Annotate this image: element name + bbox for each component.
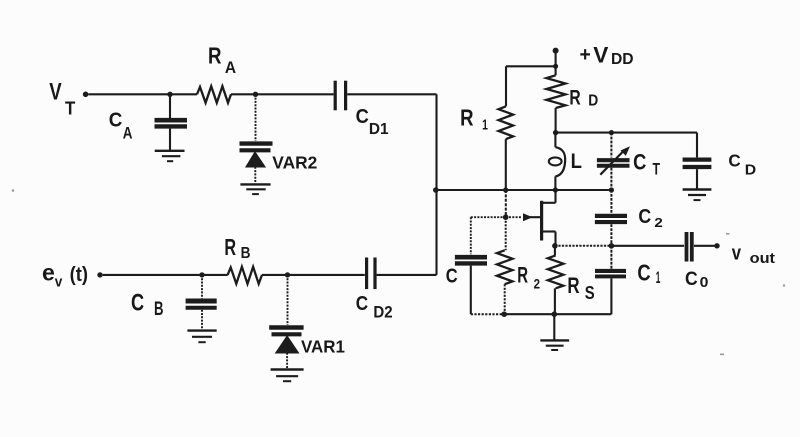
svg-text:0: 0: [700, 274, 709, 291]
svg-text:V: V: [593, 43, 608, 68]
capacitor C: [455, 257, 487, 314]
svg-text:B: B: [154, 298, 164, 320]
capacitor C2: [595, 190, 627, 246]
node junction source: [552, 243, 558, 249]
svg-text:A: A: [225, 58, 236, 77]
svg-text:v: v: [55, 273, 63, 290]
svg-text:A: A: [123, 124, 133, 142]
svg-text:+: +: [580, 44, 591, 66]
wire node CB to RB: [202, 274, 228, 276]
svg-text:R: R: [517, 262, 528, 287]
svg-text:DD: DD: [611, 51, 634, 68]
svg-text:D: D: [745, 161, 757, 178]
resistor RD: [546, 66, 565, 132]
capacitor CB: [186, 275, 217, 330]
wire gate node to arrow: [506, 216, 522, 218]
svg-text:C: C: [356, 105, 369, 128]
ground under CD: [683, 190, 712, 201]
wire node to CD1: [256, 93, 334, 95]
capacitor CD2: [367, 258, 375, 290]
wire R1 bottom to gate node: [505, 190, 507, 217]
svg-text:e: e: [42, 259, 55, 285]
node junction R1 bottom: [503, 187, 508, 192]
node junction R2 bottom: [501, 311, 507, 317]
wire RD bottom to CD: [556, 132, 697, 134]
node junction CT bottom: [609, 187, 614, 192]
svg-text:R: R: [208, 43, 222, 69]
node junction RD bottom: [553, 130, 558, 135]
wire center vertical node A: [435, 94, 437, 275]
wire node to CD2: [288, 274, 365, 276]
inductor L: [549, 133, 565, 190]
svg-text:C: C: [356, 293, 368, 315]
svg-text:VAR2: VAR2: [272, 152, 317, 172]
wire RA to node VAR2: [231, 93, 256, 95]
svg-text:VAR1: VAR1: [301, 336, 345, 356]
svg-text:R: R: [567, 273, 579, 298]
node junction C2 C1: [609, 243, 615, 249]
capacitor CD1: [335, 81, 345, 111]
node junction gate: [503, 214, 509, 220]
svg-text:T: T: [65, 99, 75, 119]
speck marks: [12, 189, 786, 355]
svg-text:v: v: [732, 243, 742, 265]
wire source to C2 node: [555, 245, 612, 247]
svg-text:C: C: [638, 206, 651, 228]
capacitor C1: [595, 246, 626, 314]
svg-text:C: C: [131, 290, 144, 317]
terminal vout: [714, 243, 719, 248]
svg-text:C: C: [685, 269, 698, 290]
capacitor CA: [155, 94, 188, 150]
wire VT to node CA: [88, 93, 170, 95]
wire node CA to RA: [170, 93, 197, 95]
node junction RS bottom: [552, 311, 558, 317]
svg-text:V: V: [49, 79, 61, 106]
wire corner down to C: [470, 217, 472, 254]
svg-text:2: 2: [534, 275, 541, 291]
resistor R1: [499, 66, 514, 190]
wire ev to node CB: [103, 274, 202, 276]
terminal ev: [97, 272, 102, 277]
varactor VAR2: [240, 94, 273, 183]
node A junction: [433, 187, 439, 193]
varactor VAR1: [269, 275, 303, 368]
wire CD1 to center corner: [347, 93, 436, 95]
svg-text:D2: D2: [373, 303, 392, 322]
capacitor CD: [683, 133, 712, 189]
svg-text:B: B: [241, 245, 251, 262]
svg-text:L: L: [571, 150, 582, 173]
svg-text:C: C: [728, 150, 741, 170]
svg-text:C: C: [109, 109, 123, 132]
wire bottom rail: [471, 313, 504, 315]
node junction CB: [199, 272, 204, 277]
svg-text:C: C: [633, 149, 646, 174]
svg-text:C: C: [637, 260, 650, 286]
node junction L bottom: [553, 187, 558, 192]
svg-text:T: T: [653, 160, 661, 179]
svg-text:D1: D1: [369, 121, 389, 138]
svg-text:1: 1: [656, 268, 661, 287]
node junction CA: [167, 92, 172, 97]
resistor R2: [497, 217, 513, 314]
svg-text:out: out: [750, 250, 775, 267]
svg-text:C: C: [446, 266, 458, 288]
node junction VAR2: [253, 92, 258, 97]
ground under CA: [155, 151, 185, 161]
svg-text:R: R: [569, 86, 580, 109]
wire horizontal node A to tank: [437, 189, 612, 191]
wire CD2 to center vertical: [377, 274, 437, 276]
capacitor C0: [687, 232, 715, 262]
wire gate node to C corner: [471, 216, 506, 218]
variable capacitor CT: [597, 133, 630, 190]
node junction VDD: [553, 64, 558, 69]
svg-text:S: S: [585, 283, 595, 303]
ground under VAR2: [240, 184, 270, 194]
wire C2 node to C0: [611, 245, 684, 247]
svg-text:1: 1: [482, 117, 488, 134]
svg-text:(t): (t): [70, 264, 88, 286]
svg-text:D: D: [588, 93, 598, 110]
svg-text:R: R: [224, 234, 236, 260]
ground main: [540, 314, 569, 350]
svg-text:2: 2: [654, 215, 662, 230]
terminal VT: [83, 92, 89, 98]
terminal +VDD: [553, 48, 559, 54]
resistor RS: [548, 246, 564, 314]
node junction CT top: [609, 130, 614, 135]
resistor RA: [197, 86, 231, 103]
node junction VAR1: [285, 272, 290, 277]
wire RB to node VAR1: [262, 274, 288, 276]
wire VDD stem: [555, 53, 557, 66]
svg-text:R: R: [460, 105, 474, 131]
ground under VAR1: [271, 370, 304, 382]
ground under CB: [187, 331, 216, 343]
resistor RB: [228, 267, 262, 284]
transistor Q1 JFET: [523, 190, 556, 245]
wire VDD to R1 top: [506, 65, 556, 67]
